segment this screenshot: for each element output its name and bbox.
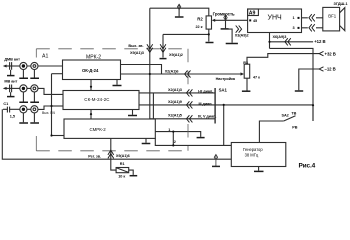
svg-text:1,5: 1,5 [10,114,15,118]
svg-text:Настройка: Настройка [216,77,236,81]
svg-text:1: 1 [168,128,170,132]
svg-text:47 к: 47 к [253,75,260,79]
svg-text:Рис.4: Рис.4 [299,162,316,169]
svg-text:Х3(А9)2: Х3(А9)2 [235,33,249,37]
svg-text:Х9(А1)2: Х9(А1)2 [169,53,183,57]
svg-text:+12 В: +12 В [314,39,325,44]
svg-text:Х6(А9)3: Х6(А9)3 [273,35,287,39]
svg-text:3: 3 [293,26,295,30]
svg-text:Вых. ПЧ: Вых. ПЧ [42,111,55,115]
svg-text:А9: А9 [249,10,256,16]
svg-text:Рег. зв.: Рег. зв. [88,154,101,158]
svg-text:ЗГДШ-1: ЗГДШ-1 [334,2,348,6]
svg-text:R2: R2 [197,16,203,21]
svg-text:10 к: 10 к [118,175,125,179]
svg-text:BF1: BF1 [328,13,336,18]
svg-text:РВ: РВ [292,125,297,129]
svg-text:Х2(А1)6: Х2(А1)6 [165,70,179,74]
svg-text:IV, V диап.: IV, V диап. [198,115,217,119]
svg-text:А1: А1 [42,53,48,59]
svg-text:38 МГц: 38 МГц [245,152,259,157]
svg-text:МРК-2: МРК-2 [86,54,101,60]
svg-text:Вых. зв.: Вых. зв. [128,44,143,48]
svg-text:С1: С1 [3,102,8,106]
svg-text:Х9(А1)6: Х9(А1)6 [116,154,130,158]
svg-text:Громкость: Громкость [213,11,235,16]
svg-text:22 к: 22 к [196,25,203,29]
svg-text:I-II диап.: I-II диап. [198,90,213,94]
svg-text:УНЧ: УНЧ [268,14,283,21]
svg-text:SA1: SA1 [219,88,228,93]
svg-text:45: 45 [253,19,257,23]
svg-text:МВ ант: МВ ант [4,80,17,84]
svg-text:+32 В: +32 В [325,51,336,56]
svg-text:2: 2 [174,140,176,144]
svg-text:Х9(А1)3: Х9(А1)3 [130,51,144,55]
svg-text:Х2(А1)5: Х2(А1)5 [168,114,182,118]
svg-text:ТВ: ТВ [291,111,296,115]
svg-text:SA2: SA2 [282,114,289,118]
svg-text:R1: R1 [120,162,125,166]
svg-text:III диап.: III диап. [199,102,213,106]
svg-text:СМРК-2: СМРК-2 [90,127,107,132]
svg-text:–12 В: –12 В [325,66,336,71]
svg-text:1: 1 [293,16,295,20]
svg-text:ОК-Д-24: ОК-Д-24 [82,68,99,73]
svg-text:R3: R3 [243,61,248,65]
svg-text:Х2(А1)3: Х2(А1)3 [168,88,182,92]
svg-text:СК-М-24-2С: СК-М-24-2С [84,97,109,102]
svg-text:Х2(А1)9: Х2(А1)9 [168,100,182,104]
svg-text:ДМВ ант: ДМВ ант [4,57,20,61]
svg-text:Генератор: Генератор [243,147,263,152]
